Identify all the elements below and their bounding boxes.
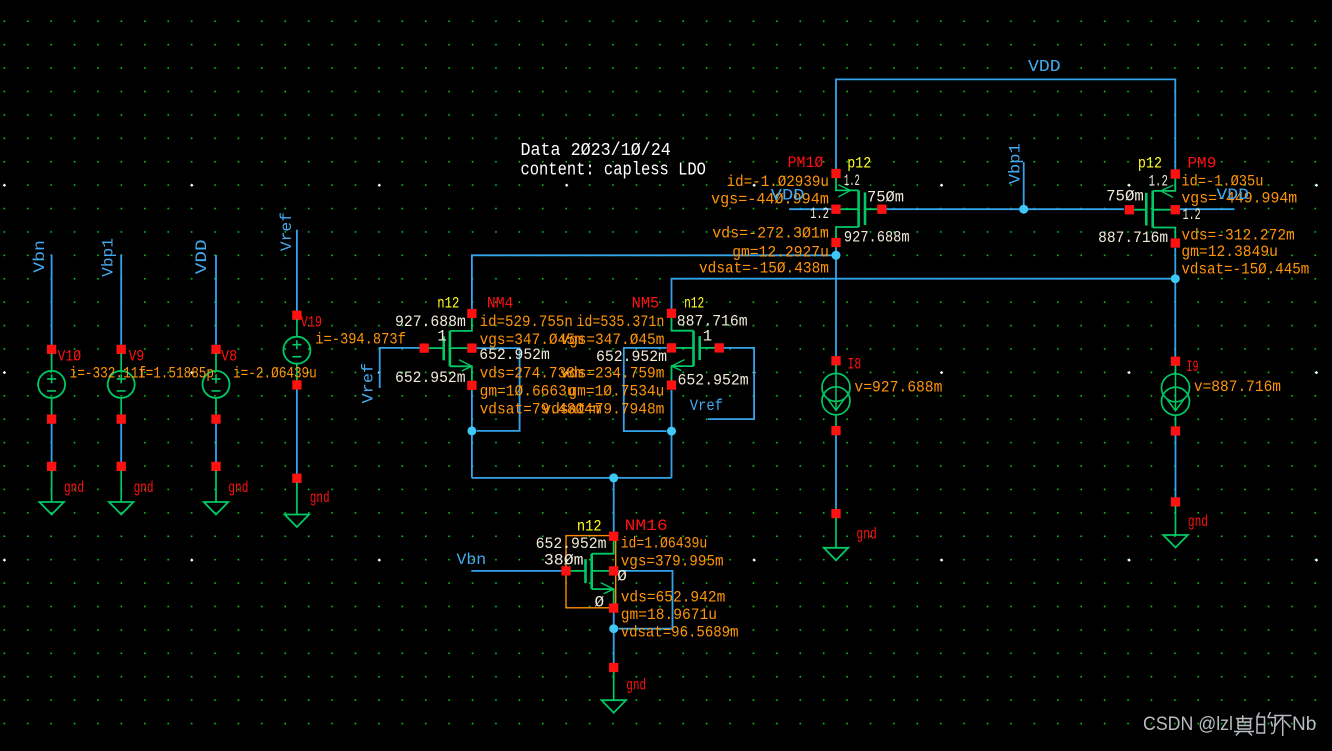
svg-text:75Øm: 75Øm: [867, 189, 904, 207]
ground symbol V8: [215, 471, 217, 503]
wire V9 to gnd: [120, 423, 122, 462]
svg-text:75Øm: 75Øm: [1106, 187, 1144, 205]
svg-text:content: capless LDO: content: capless LDO: [521, 161, 706, 181]
svg-text:gnd: gnd: [64, 479, 84, 497]
voltage source V9: [108, 345, 135, 424]
ground symbol I8: [835, 518, 837, 548]
svg-text:927.688m: 927.688m: [844, 229, 910, 247]
wire PM10 drain down to I8: [835, 247, 837, 356]
svg-text:v=887.716m: v=887.716m: [1194, 378, 1281, 396]
wire Vref to V19: [296, 230, 298, 311]
svg-text:Vref: Vref: [690, 397, 723, 415]
svg-text:NM4: NM4: [487, 294, 514, 312]
svg-text:I8: I8: [848, 355, 862, 373]
svg-text:V19: V19: [301, 314, 322, 332]
transistor PM10 (pmos p12): [831, 169, 886, 247]
svg-text:gnd: gnd: [626, 677, 646, 695]
wire tail horizontal: [472, 477, 672, 479]
svg-text:id=1.Ø6439u: id=1.Ø6439u: [621, 534, 708, 552]
wire NM16 source down: [613, 612, 615, 663]
svg-text:gm=12.3849u: gm=12.3849u: [1181, 243, 1278, 261]
wire Vbn vertical: [51, 254, 53, 344]
junction PM9 drain: [1171, 274, 1180, 283]
svg-text:i=1.51885p: i=1.51885p: [138, 364, 214, 382]
wire Vbp1 stub: [1023, 162, 1025, 209]
svg-text:VDD: VDD: [193, 239, 211, 274]
svg-text:gnd: gnd: [856, 525, 877, 543]
svg-text:Vbn: Vbn: [457, 551, 487, 569]
svg-text:652.952m: 652.952m: [395, 369, 466, 387]
svg-text:1: 1: [437, 328, 447, 346]
svg-text:Ø: Ø: [595, 593, 605, 611]
svg-text:vgs=379.995m: vgs=379.995m: [621, 552, 724, 570]
wire gate bias Vbp1 horizontal: [886, 208, 1124, 210]
gnd pin square I8: [831, 509, 840, 518]
transistor PM9 (pmos p12): [1125, 169, 1180, 247]
watermark CSDN @lzl (CJK drawn as paths): [1143, 712, 1316, 736]
svg-text:Vbp1: Vbp1: [1006, 143, 1024, 184]
svg-text:VDD: VDD: [1028, 58, 1061, 77]
gnd pin square V19: [292, 474, 301, 483]
svg-text:i=-332.11f: i=-332.11f: [70, 364, 146, 382]
svg-text:927.688m: 927.688m: [395, 313, 466, 331]
svg-text:Nb: Nb: [1292, 714, 1316, 735]
svg-text:NM16: NM16: [625, 517, 668, 535]
svg-text:VDD: VDD: [1216, 186, 1249, 204]
gnd pin square V10: [47, 462, 56, 471]
svg-text:1.2: 1.2: [1149, 173, 1168, 191]
svg-text:887.716m: 887.716m: [1098, 229, 1168, 247]
svg-text:n12: n12: [684, 294, 704, 312]
wire PM9 bulk to VDD stub: [1180, 208, 1235, 210]
wire tail down to NM16: [613, 478, 615, 533]
wire NM16 bulk loop: [618, 571, 672, 629]
svg-text:vds=234.759m: vds=234.759m: [560, 365, 664, 383]
svg-text:1.2: 1.2: [844, 172, 860, 190]
svg-text:I9: I9: [1187, 358, 1199, 376]
wire V8 to gnd: [215, 423, 217, 462]
svg-text:V1Ø: V1Ø: [58, 348, 82, 366]
svg-text:n12: n12: [577, 518, 602, 536]
transistor NM16 (nmos n12): [561, 532, 618, 613]
svg-text:652.952m: 652.952m: [596, 348, 667, 366]
svg-text:p12: p12: [847, 155, 871, 173]
junction NM5 source: [667, 427, 676, 436]
wire Vbn to NM16 gate: [471, 570, 561, 572]
junction Vbp1: [1019, 205, 1028, 214]
wire NM5 source down: [671, 390, 673, 478]
wire I8 to gnd: [835, 435, 837, 510]
svg-text:VDD: VDD: [771, 187, 805, 205]
wire NM4 bulk loop: [477, 348, 520, 431]
svg-text:gnd: gnd: [228, 479, 248, 497]
gnd pin square V8: [211, 462, 220, 471]
transistor NM4 (nmos n12): [420, 309, 477, 390]
current source I8: [822, 356, 850, 435]
svg-text:vdsat=-15Ø.445m: vdsat=-15Ø.445m: [1181, 261, 1309, 279]
ground symbol V10: [51, 471, 53, 503]
svg-text:Data 2Ø23/1Ø/24: Data 2Ø23/1Ø/24: [521, 141, 671, 161]
wire NM4 source down: [471, 390, 473, 478]
voltage source V10: [38, 345, 65, 424]
gnd pin square I9: [1171, 497, 1180, 506]
svg-text:i=-2.Ø6439u: i=-2.Ø6439u: [233, 364, 317, 382]
wire PM10 bulk to VDD stub: [789, 208, 831, 210]
junction NM4 source: [467, 426, 476, 435]
wire node NM4 drain to PM10 drain: [472, 255, 836, 309]
svg-text:1.2: 1.2: [1183, 206, 1201, 224]
svg-text:CSDN @lzl: CSDN @lzl: [1143, 714, 1233, 735]
junction PM10 drain: [832, 251, 841, 260]
svg-text:652.952m: 652.952m: [536, 535, 607, 553]
junction tail node: [609, 473, 618, 482]
wire V19 to gnd: [296, 389, 298, 474]
svg-text:vgs=347.Ø45m: vgs=347.Ø45m: [560, 331, 664, 349]
svg-text:PM1Ø: PM1Ø: [788, 154, 824, 172]
svg-text:Vbp1: Vbp1: [99, 238, 117, 277]
svg-text:V9: V9: [129, 348, 145, 366]
svg-text:NM5: NM5: [632, 294, 660, 312]
ground symbol NM16: [613, 672, 615, 701]
selection box NM16: [566, 536, 616, 608]
wire VDD vertical: [215, 255, 217, 345]
svg-text:Vbn: Vbn: [31, 240, 49, 273]
svg-text:id=535.371n: id=535.371n: [576, 313, 664, 331]
svg-text:gnd: gnd: [1188, 513, 1208, 531]
voltage source V8: [203, 345, 230, 424]
svg-text:p12: p12: [1138, 155, 1162, 173]
svg-text:vdsat=-15Ø.438m: vdsat=-15Ø.438m: [699, 260, 829, 278]
wire PM9 drain down to I9: [1174, 248, 1176, 357]
svg-text:Vref: Vref: [278, 212, 296, 251]
svg-text:gnd: gnd: [134, 479, 154, 497]
ground symbol V19: [296, 482, 298, 514]
wire VDD rail: [836, 79, 1175, 170]
svg-text:652.952m: 652.952m: [678, 371, 749, 389]
svg-text:gnd: gnd: [310, 489, 330, 507]
wire I9 to gnd: [1175, 435, 1177, 498]
voltage source V19: [283, 311, 310, 390]
svg-text:gm=18.9671u: gm=18.9671u: [621, 606, 717, 624]
wire Vref to NM4 gate: [380, 348, 420, 388]
wire NM5 bulk loop: [624, 348, 667, 431]
svg-text:Vref: Vref: [359, 363, 377, 404]
svg-text:n12: n12: [437, 294, 459, 312]
svg-text:vds=-312.272m: vds=-312.272m: [1181, 227, 1294, 245]
ground symbol V9: [120, 471, 122, 503]
gnd pin square NM16: [609, 663, 618, 672]
wire V10 to gnd: [51, 423, 53, 462]
wire NM5 gate to Vref stub: [708, 348, 754, 419]
svg-text:i=-394.873f: i=-394.873f: [315, 330, 406, 348]
current source I9: [1162, 357, 1190, 436]
svg-text:id=529.755n: id=529.755n: [480, 313, 573, 331]
wire Vbp1 vertical: [120, 254, 122, 344]
ground symbol I9: [1175, 506, 1177, 535]
svg-text:PM9: PM9: [1187, 155, 1216, 173]
svg-text:gm=1Ø.6663u: gm=1Ø.6663u: [480, 383, 576, 401]
wire node NM5 drain to PM9 drain: [672, 279, 1176, 310]
svg-text:v=927.688m: v=927.688m: [854, 379, 942, 397]
gnd pin square V9: [117, 462, 126, 471]
svg-text:V8: V8: [221, 348, 237, 366]
svg-text:vdsat=79.7948m: vdsat=79.7948m: [542, 401, 664, 419]
svg-text:gm=1Ø.7534u: gm=1Ø.7534u: [568, 383, 664, 401]
svg-text:38Øm: 38Øm: [544, 552, 584, 570]
junction NM16 source/bulk: [609, 624, 618, 633]
svg-text:vds=-272.3Ø1m: vds=-272.3Ø1m: [712, 224, 829, 242]
svg-text:vds=652.942m: vds=652.942m: [621, 589, 726, 607]
svg-text:vdsat=96.5689m: vdsat=96.5689m: [621, 623, 739, 641]
transistor NM5 (nmos n12): [667, 309, 724, 390]
svg-text:1: 1: [703, 327, 713, 345]
